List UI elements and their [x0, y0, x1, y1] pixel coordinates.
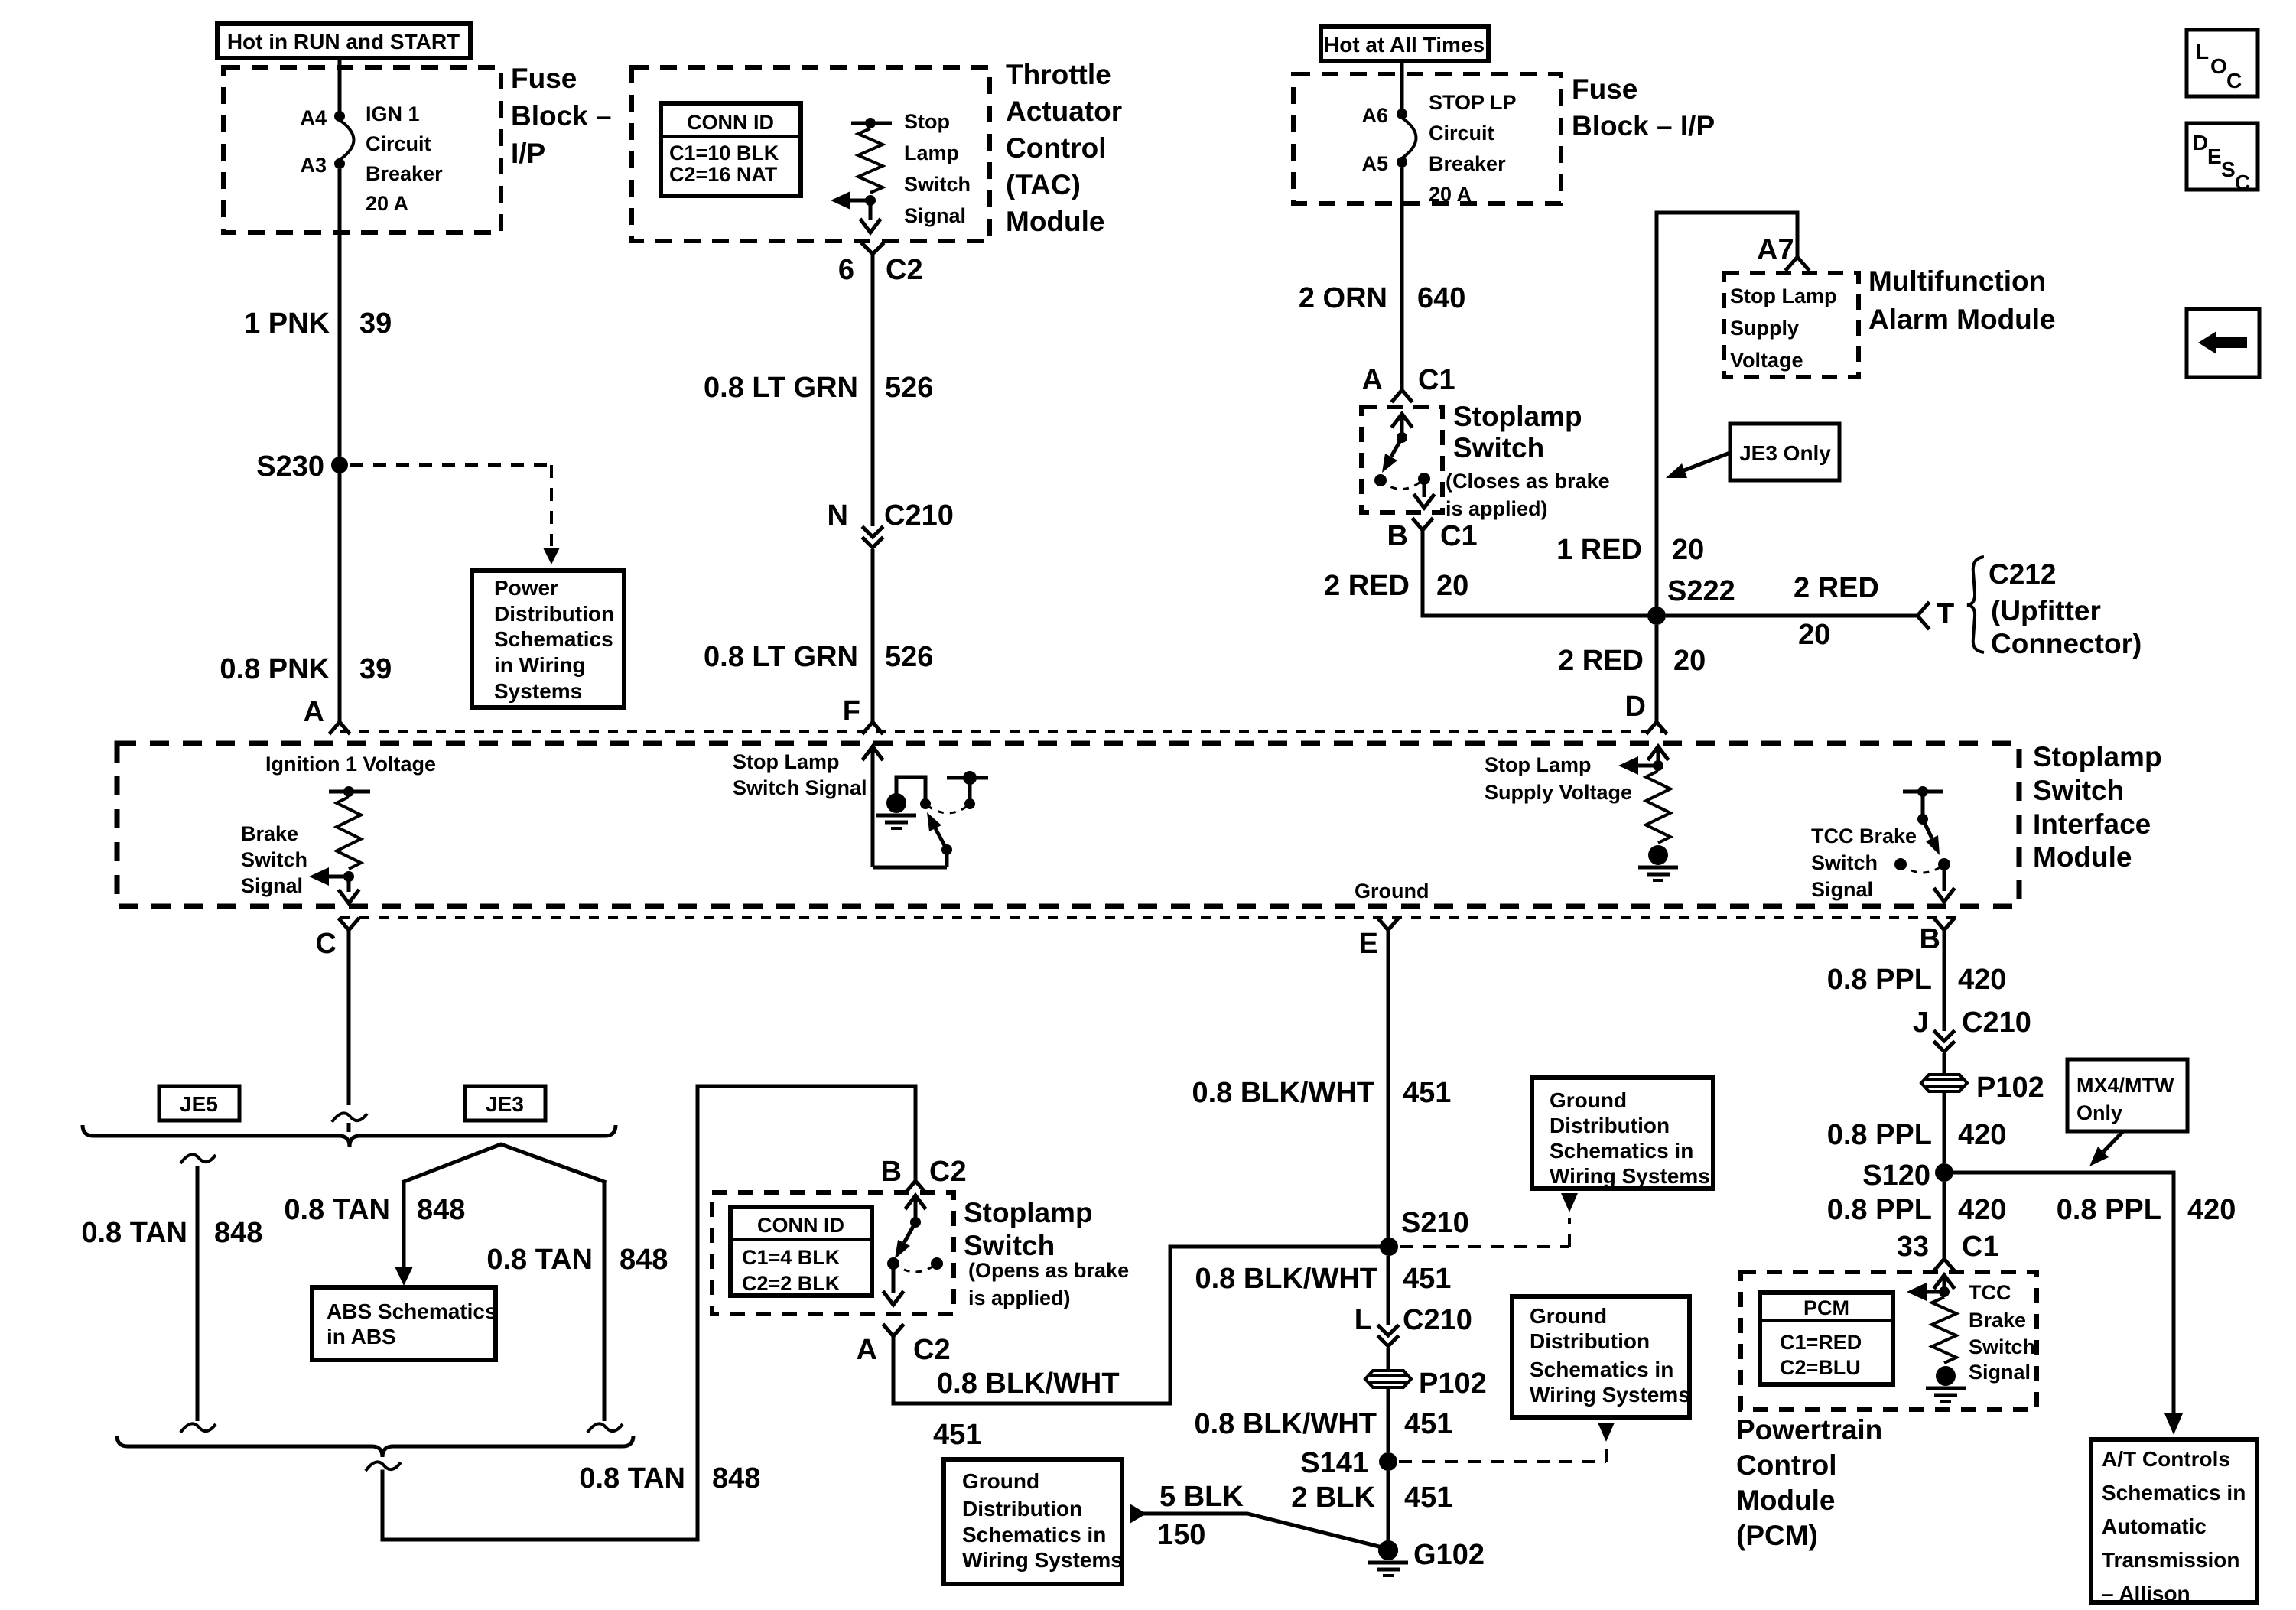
- svg-text:Stoplamp: Stoplamp: [2033, 741, 2162, 772]
- svg-text:Control: Control: [1736, 1449, 1837, 1481]
- svg-text:A5: A5: [1361, 152, 1388, 175]
- pin A of interface module: [304, 696, 349, 733]
- svg-text:Powertrain: Powertrain: [1736, 1414, 1882, 1446]
- svg-text:Switch: Switch: [1811, 851, 1878, 874]
- svg-text:Ground: Ground: [962, 1469, 1039, 1493]
- wire to P102: [1387, 1348, 1390, 1371]
- label STOP LP Circuit Breaker 20 A: [1429, 91, 1517, 206]
- label 0.8 LT GRN 526 (upper): [704, 372, 933, 404]
- svg-text:Connector): Connector): [1991, 628, 2142, 659]
- connector A7 to multifunction alarm module: [1757, 234, 1808, 269]
- module name Powertrain Control Module (PCM): [1736, 1414, 1882, 1551]
- label 0.8 TAN 848 (ABS branch): [284, 1194, 465, 1226]
- stop lamp switch signal resistor (TAC internal): [851, 118, 892, 233]
- svg-text:C210: C210: [884, 499, 954, 532]
- wire 0.8 PPL 420 from S120 to PCM: [1943, 1182, 1946, 1258]
- svg-text:C1=4 BLK: C1=4 BLK: [742, 1246, 841, 1269]
- label 0.8 PPL 420 (pin B): [1827, 964, 2007, 996]
- svg-text:Stop Lamp: Stop Lamp: [1730, 285, 1837, 307]
- brace joining JE5 and JE3 branches: [83, 1125, 616, 1147]
- arrow to left (brake switch signal): [309, 867, 349, 886]
- wire 1 RED 20 from A7 branch down to S222: [1657, 213, 1797, 607]
- svg-text:Actuator: Actuator: [1006, 96, 1122, 127]
- terminal T of C212 upfitter connector: [1937, 598, 1954, 630]
- connector N C210: [828, 499, 954, 548]
- connector B C2 at lower stoplamp switch: [881, 1156, 967, 1192]
- svg-text:Brake: Brake: [241, 822, 298, 845]
- svg-text:C2=BLU: C2=BLU: [1780, 1356, 1861, 1379]
- svg-text:Hot at All Times: Hot at All Times: [1324, 33, 1485, 57]
- svg-text:A: A: [304, 696, 324, 728]
- wire 0.8 TAN 848 right JE3 branch: [587, 1182, 623, 1433]
- grommet P102 (right): [1921, 1072, 2044, 1104]
- svg-text:C: C: [2235, 171, 2250, 194]
- svg-text:0.8 LT GRN: 0.8 LT GRN: [704, 641, 858, 673]
- wire 0.8 LT GRN 526 (lower): [871, 549, 875, 722]
- svg-text:848: 848: [214, 1217, 262, 1249]
- svg-text:Hot in RUN and START: Hot in RUN and START: [227, 30, 460, 54]
- dashed arc of F switch: [927, 805, 968, 813]
- svg-text:Alarm Module: Alarm Module: [1868, 304, 2056, 335]
- label Stop Lamp Supply Voltage (multifunction): [1730, 285, 1837, 372]
- svg-text:D: D: [1625, 691, 1646, 723]
- box Power Distribution Schematics in Wiring Systems: [472, 571, 624, 707]
- svg-text:Module: Module: [1736, 1485, 1835, 1516]
- svg-text:Systems: Systems: [494, 679, 582, 703]
- wire 0.8 TAN 848 to stoplamp switch B C2: [366, 1086, 915, 1540]
- label 0.8 TAN 848 (JE5 branch): [81, 1217, 262, 1249]
- svg-text:Block – I/P: Block – I/P: [1572, 110, 1715, 141]
- svg-text:C: C: [2226, 69, 2242, 93]
- JE3 label box: [465, 1086, 545, 1120]
- arrow to left (stop lamp supply voltage): [1618, 756, 1658, 775]
- svg-text:848: 848: [712, 1462, 760, 1495]
- label 2 ORN 640: [1299, 282, 1466, 314]
- LOC reference box: [2187, 30, 2258, 96]
- svg-text:L: L: [1355, 1304, 1372, 1336]
- svg-text:A7: A7: [1757, 234, 1794, 266]
- brake switch signal resistor (module internal): [329, 786, 370, 903]
- wire 0.8 TAN 848 to ABS arrow: [395, 1182, 413, 1286]
- svg-text:Switch: Switch: [1969, 1335, 2035, 1358]
- svg-text:2 RED: 2 RED: [1558, 645, 1644, 677]
- pin A6: [1361, 104, 1407, 127]
- svg-text:Wiring Systems: Wiring Systems: [1530, 1383, 1690, 1407]
- box Ground Distribution Schematics in Wiring Systems (lower right): [1512, 1296, 1690, 1417]
- label Ground (module internal): [1355, 880, 1429, 903]
- svg-text:JE3: JE3: [486, 1092, 524, 1116]
- DESC reference box: [2187, 123, 2258, 194]
- module name Stoplamp Switch Interface Module: [2033, 741, 2162, 873]
- svg-text:Power: Power: [494, 576, 558, 600]
- svg-text:C210: C210: [1962, 1007, 2031, 1039]
- svg-text:(PCM): (PCM): [1736, 1520, 1818, 1551]
- connector A C2 below lower stoplamp switch: [857, 1325, 951, 1366]
- label 1 RED 20: [1556, 534, 1704, 566]
- svg-text:Circuit: Circuit: [1429, 122, 1494, 145]
- svg-text:526: 526: [885, 372, 933, 404]
- svg-text:Stop: Stop: [904, 110, 950, 133]
- svg-text:5 BLK: 5 BLK: [1159, 1481, 1244, 1513]
- CONN ID box (stoplamp switch): C1=4 BLK C2=2 BLK: [730, 1207, 872, 1296]
- left arrow box: [2187, 309, 2259, 377]
- svg-text:C2: C2: [886, 254, 923, 286]
- svg-text:0.8 BLK/WHT: 0.8 BLK/WHT: [1195, 1263, 1377, 1295]
- wire J to P102: [1943, 1053, 1946, 1075]
- svg-text:848: 848: [620, 1244, 668, 1276]
- svg-text:2 RED: 2 RED: [1324, 570, 1410, 602]
- label TCC Brake Switch Signal (module): [1811, 825, 1917, 901]
- stoplamp switch dashed box (closes): [1361, 407, 1442, 512]
- JE3 branch fan wires: [404, 1144, 604, 1182]
- wire from Hot in RUN box to circuit breaker: [338, 58, 342, 112]
- svg-text:I/P: I/P: [511, 138, 545, 169]
- module name Fuse Block - I/P (left): [511, 63, 612, 169]
- wire 0.8 TAN 848 JE5 branch: [180, 1154, 216, 1433]
- wire 0.8 PPL 420 branch to A/T controls: [1953, 1173, 2183, 1435]
- JE3 Only callout box: [1730, 424, 1839, 480]
- svg-text:39: 39: [359, 653, 392, 685]
- svg-text:CONN ID: CONN ID: [757, 1214, 844, 1237]
- svg-text:Stoplamp: Stoplamp: [964, 1197, 1093, 1228]
- label box "Hot in RUN and START": [217, 24, 470, 58]
- wire 0.8 BLK/WHT 451 from switch to S210: [893, 1247, 1380, 1403]
- connector B C1 below stoplamp switch: [1387, 519, 1478, 552]
- svg-text:1 PNK: 1 PNK: [244, 307, 330, 340]
- svg-text:451: 451: [1404, 1408, 1452, 1440]
- svg-text:G102: G102: [1413, 1539, 1485, 1571]
- wire 5 BLK 150 to G102: [1130, 1504, 1388, 1549]
- box Ground Distribution Schematics in Wiring Systems (bottom left): [944, 1459, 1123, 1584]
- label Brake Switch Signal: [241, 822, 307, 897]
- svg-text:Distribution: Distribution: [1550, 1114, 1670, 1137]
- connector 33 C1 at PCM: [1897, 1231, 1999, 1270]
- svg-text:Stoplamp: Stoplamp: [1453, 401, 1582, 432]
- TCC brake switch contacts (module internal): [1894, 786, 1953, 902]
- svg-text:STOP LP: STOP LP: [1429, 91, 1517, 114]
- svg-text:S230: S230: [256, 450, 324, 483]
- svg-text:Switch: Switch: [904, 173, 971, 196]
- wire 2 RED 20 to upfitter connector: [1666, 603, 1928, 628]
- svg-text:2 RED: 2 RED: [1794, 572, 1879, 604]
- module name Multifunction Alarm Module: [1868, 265, 2056, 335]
- svg-text:C2=16 NAT: C2=16 NAT: [669, 163, 778, 186]
- multifunction alarm module dashed box: [1724, 273, 1859, 377]
- label Ignition 1 Voltage: [265, 753, 436, 776]
- internal switch blade at F: [927, 812, 947, 850]
- svg-text:451: 451: [933, 1419, 981, 1451]
- splice S210: [1380, 1207, 1469, 1256]
- dashed reference from S230 to Power Distribution: [350, 465, 560, 564]
- pin A5: [1361, 152, 1407, 175]
- svg-text:C1=10 BLK: C1=10 BLK: [669, 141, 779, 164]
- svg-text:Stop Lamp: Stop Lamp: [733, 750, 840, 773]
- svg-text:Distribution: Distribution: [1530, 1329, 1650, 1353]
- svg-text:Wiring Systems: Wiring Systems: [962, 1548, 1123, 1572]
- wire 2 RED 20 from S222 down to pin D: [1655, 625, 1659, 722]
- TCC brake switch signal resistor (PCM internal): [1926, 1275, 1966, 1401]
- svg-text:MX4/MTW: MX4/MTW: [2076, 1074, 2174, 1097]
- svg-text:O: O: [2210, 54, 2227, 78]
- stoplamp switch contacts (closes as brake applied): [1374, 414, 1433, 508]
- svg-text:P102: P102: [1976, 1072, 2044, 1104]
- svg-text:Module: Module: [1006, 206, 1104, 237]
- label Stop Lamp Switch Signal (TAC): [904, 110, 971, 227]
- svg-text:20 A: 20 A: [366, 192, 408, 215]
- stoplamp switch contacts (opens as brake applied): [884, 1195, 943, 1305]
- label Stop Lamp Supply Voltage (module): [1485, 753, 1632, 804]
- svg-text:A/T Controls: A/T Controls: [2102, 1447, 2230, 1471]
- wire 2 RED 20 from switch B to S222: [1423, 530, 1648, 616]
- svg-text:– Allison: – Allison: [2102, 1582, 2190, 1605]
- svg-text:Multifunction: Multifunction: [1868, 265, 2046, 297]
- internal fixed contact at F: [947, 771, 988, 809]
- svg-text:420: 420: [2187, 1194, 2236, 1226]
- svg-text:451: 451: [1403, 1077, 1451, 1109]
- svg-text:JE3 Only: JE3 Only: [1739, 441, 1831, 465]
- svg-text:A: A: [857, 1334, 877, 1366]
- wire 1 PNK 39: [338, 169, 342, 460]
- label 0.8 PPL 420 (above S120): [1827, 1119, 2007, 1151]
- label 1 PNK 39: [244, 307, 392, 340]
- svg-text:Switch: Switch: [964, 1230, 1055, 1261]
- label 5 BLK 150: [1157, 1481, 1244, 1551]
- svg-text:Breaker: Breaker: [1429, 152, 1506, 175]
- fuse block I/P dashed box (right): [1293, 74, 1561, 203]
- svg-text:Module: Module: [2033, 841, 2132, 873]
- svg-text:TCC: TCC: [1969, 1281, 2011, 1304]
- label 0.8 PPL 420 (branch): [2057, 1194, 2236, 1226]
- dashed reference from S210 to ground distribution: [1400, 1193, 1578, 1247]
- svg-text:C210: C210: [1403, 1304, 1472, 1336]
- svg-text:B: B: [1920, 923, 1940, 955]
- pin E wire down to S210: [1359, 919, 1397, 1238]
- svg-text:A6: A6: [1361, 104, 1388, 127]
- PCM dashed box: [1741, 1272, 2037, 1410]
- svg-text:C1=RED: C1=RED: [1780, 1331, 1862, 1354]
- svg-text:CONN ID: CONN ID: [687, 111, 774, 134]
- wire 0.8 LT GRN 526 (upper): [871, 254, 875, 526]
- module name Stoplamp Switch (lower): [964, 1197, 1093, 1261]
- svg-text:(Opens as brake: (Opens as brake: [968, 1259, 1129, 1282]
- svg-text:0.8 TAN: 0.8 TAN: [486, 1244, 593, 1276]
- label 0.8 BLK/WHT 451 (pin E leg): [1192, 1077, 1451, 1109]
- svg-text:Brake: Brake: [1969, 1309, 2026, 1332]
- svg-text:Signal: Signal: [241, 874, 303, 897]
- svg-text:IGN 1: IGN 1: [366, 102, 420, 125]
- svg-text:Switch Signal: Switch Signal: [733, 776, 867, 799]
- svg-text:451: 451: [1403, 1263, 1451, 1295]
- svg-text:20: 20: [1798, 619, 1830, 651]
- label 2 RED 20 (left of S222): [1324, 570, 1468, 602]
- brace and label C212 (Upfitter Connector): [1967, 557, 2142, 659]
- svg-text:Signal: Signal: [1811, 878, 1873, 901]
- label IGN 1 Circuit Breaker 20 A: [366, 102, 443, 215]
- wire 0.8 PNK 39: [338, 470, 342, 722]
- svg-text:Only: Only: [2076, 1101, 2122, 1124]
- svg-text:(Closes as brake: (Closes as brake: [1446, 470, 1610, 493]
- svg-text:C2=2 BLK: C2=2 BLK: [742, 1272, 841, 1295]
- pin A4: [300, 106, 345, 129]
- label box "Hot at All Times": [1321, 27, 1488, 61]
- pin B wire down (0.8 PPL 420): [1920, 919, 1953, 1031]
- svg-text:Switch: Switch: [1453, 432, 1544, 463]
- svg-text:0.8 PPL: 0.8 PPL: [1827, 1119, 1932, 1151]
- svg-text:Ignition 1 Voltage: Ignition 1 Voltage: [265, 753, 436, 776]
- connector 6 C2 at TAC: [838, 244, 923, 286]
- TAC module dashed box: [632, 67, 990, 241]
- stop lamp switch signal pin F arrow: [863, 746, 952, 867]
- svg-text:420: 420: [1958, 1119, 2006, 1151]
- svg-text:Switch: Switch: [241, 848, 307, 871]
- label (Closes as brake is applied): [1446, 470, 1610, 520]
- label 2 BLK 451: [1291, 1482, 1452, 1514]
- wire 2 BLK 451 from S141 to G102: [1387, 1471, 1390, 1542]
- svg-text:0.8 TAN: 0.8 TAN: [579, 1462, 685, 1495]
- svg-text:20: 20: [1672, 534, 1704, 566]
- svg-text:2 ORN: 2 ORN: [1299, 282, 1387, 314]
- wire from pin C down to junction brace: [316, 919, 367, 1132]
- CONN ID box (TAC): C1=10 BLK C2=16 NAT: [661, 103, 801, 196]
- svg-text:E: E: [1359, 928, 1378, 960]
- svg-text:39: 39: [359, 307, 392, 340]
- svg-text:C1: C1: [1418, 364, 1455, 396]
- svg-text:P102: P102: [1419, 1368, 1487, 1400]
- svg-text:T: T: [1937, 598, 1954, 630]
- svg-text:A4: A4: [300, 106, 327, 129]
- svg-text:B: B: [1387, 520, 1408, 552]
- svg-text:Schematics: Schematics: [494, 627, 613, 651]
- svg-text:Wiring Systems: Wiring Systems: [1550, 1164, 1710, 1188]
- connector J C210: [1913, 1007, 2031, 1052]
- svg-text:Control: Control: [1006, 132, 1107, 164]
- svg-text:0.8 TAN: 0.8 TAN: [81, 1217, 187, 1249]
- lower brace joining TAN branches: [117, 1436, 633, 1457]
- svg-text:451: 451: [1404, 1482, 1452, 1514]
- wire 0.8 BLK/WHT 451 from S210 to C210: [1387, 1256, 1390, 1325]
- label 0.8 BLK/WHT 451 (below S210): [1195, 1263, 1451, 1295]
- svg-text:Signal: Signal: [1969, 1361, 2031, 1384]
- label 0.8 BLK/WHT 451 (switch leg): [933, 1368, 1120, 1451]
- svg-text:S: S: [2221, 158, 2236, 181]
- svg-text:33: 33: [1897, 1231, 1929, 1263]
- pin F of interface module: [843, 695, 882, 733]
- wire from Hot at All Times box to breaker: [1400, 61, 1404, 110]
- svg-text:C1: C1: [1962, 1231, 1999, 1263]
- svg-text:640: 640: [1417, 282, 1465, 314]
- svg-text:6: 6: [838, 254, 854, 286]
- label (Opens as brake is applied): [968, 1259, 1129, 1309]
- svg-text:Ground: Ground: [1355, 880, 1429, 903]
- svg-text:S141: S141: [1300, 1447, 1368, 1479]
- connector A C1 at stoplamp switch: [1362, 364, 1455, 401]
- label 2 RED 20 (below S222): [1558, 645, 1706, 677]
- arrow from MX4/MTW Only box to wire: [2089, 1131, 2123, 1166]
- svg-text:is applied): is applied): [968, 1286, 1071, 1309]
- svg-text:0.8 PPL: 0.8 PPL: [1827, 1194, 1932, 1226]
- svg-text:Lamp: Lamp: [904, 141, 959, 164]
- svg-text:0.8 BLK/WHT: 0.8 BLK/WHT: [1192, 1077, 1374, 1109]
- svg-text:20 A: 20 A: [1429, 183, 1472, 206]
- svg-text:Fuse: Fuse: [1572, 73, 1637, 105]
- svg-text:Distribution: Distribution: [962, 1497, 1082, 1521]
- svg-text:848: 848: [417, 1194, 465, 1226]
- internal ground contact at F: [876, 777, 931, 828]
- svg-text:0.8 BLK/WHT: 0.8 BLK/WHT: [937, 1368, 1120, 1400]
- pin A3: [300, 154, 345, 177]
- svg-text:N: N: [828, 499, 848, 532]
- connector L C210: [1355, 1304, 1472, 1346]
- svg-text:Schematics in: Schematics in: [2102, 1481, 2246, 1504]
- JE5 label box: [159, 1086, 239, 1120]
- svg-text:C: C: [316, 928, 337, 960]
- svg-text:0.8 PNK: 0.8 PNK: [220, 653, 330, 685]
- svg-text:D: D: [2193, 131, 2208, 154]
- label 0.8 BLK/WHT 451 (above S141): [1194, 1408, 1452, 1440]
- label 0.8 LT GRN 526 (lower): [704, 641, 933, 673]
- fuse block I/P dashed box (left): [223, 67, 501, 233]
- stoplamp switch interface module dashed box: [117, 743, 2019, 906]
- svg-text:C2: C2: [913, 1334, 951, 1366]
- svg-text:Ground: Ground: [1550, 1088, 1627, 1112]
- box ABS Schematics in ABS: [312, 1287, 497, 1360]
- svg-text:Fuse: Fuse: [511, 63, 577, 94]
- svg-text:PCM: PCM: [1803, 1296, 1849, 1319]
- grommet P102 (center): [1365, 1368, 1487, 1400]
- CONN ID box (PCM): C1=RED C2=BLU: [1760, 1293, 1893, 1384]
- svg-text:526: 526: [885, 641, 933, 673]
- label 0.8 TAN 848 (right JE3 branch): [486, 1244, 668, 1276]
- wire 2 ORN 640: [1400, 168, 1404, 389]
- svg-text:is applied): is applied): [1446, 497, 1548, 520]
- stoplamp switch dashed box (opens): [712, 1192, 954, 1314]
- wire 0.8 PPL 420 from P102 to S120: [1943, 1092, 1946, 1163]
- svg-text:0.8 PPL: 0.8 PPL: [2057, 1194, 2161, 1226]
- label TCC Brake Switch Signal (PCM): [1969, 1281, 2035, 1384]
- svg-text:S210: S210: [1401, 1207, 1469, 1239]
- svg-text:Switch: Switch: [2033, 775, 2124, 806]
- svg-text:Supply Voltage: Supply Voltage: [1485, 781, 1632, 804]
- ground G102: [1368, 1539, 1485, 1576]
- svg-text:(TAC): (TAC): [1006, 169, 1081, 200]
- connector line (thin dashed) top, pins A F D: [340, 730, 1665, 733]
- arrow to left (TCC brake switch signal PCM): [1907, 1283, 1944, 1301]
- svg-text:in Wiring: in Wiring: [494, 653, 586, 677]
- svg-text:A3: A3: [300, 154, 327, 177]
- box Ground Distribution Schematics in Wiring Systems (upper): [1532, 1078, 1713, 1189]
- arrow from JE3 Only box to wire: [1666, 453, 1730, 478]
- svg-text:Distribution: Distribution: [494, 602, 614, 626]
- svg-text:Breaker: Breaker: [366, 162, 443, 185]
- svg-text:JE5: JE5: [180, 1092, 218, 1116]
- svg-text:TCC Brake: TCC Brake: [1811, 825, 1917, 847]
- svg-text:20: 20: [1673, 645, 1706, 677]
- svg-text:0.8 TAN: 0.8 TAN: [284, 1194, 390, 1226]
- module name Fuse Block - I/P (right): [1572, 73, 1715, 141]
- svg-text:S120: S120: [1862, 1160, 1930, 1192]
- label 0.8 PPL 420 (below S120): [1827, 1194, 2007, 1226]
- svg-text:F: F: [843, 695, 860, 727]
- label 0.8 TAN 848 (bottom): [579, 1462, 760, 1495]
- stop lamp supply voltage resistor at pin D: [1638, 746, 1678, 880]
- svg-text:E: E: [2207, 145, 2222, 168]
- svg-text:Schematics in: Schematics in: [962, 1523, 1106, 1547]
- svg-text:Automatic: Automatic: [2102, 1514, 2207, 1538]
- svg-text:ABS Schematics: ABS Schematics: [327, 1299, 497, 1323]
- svg-text:420: 420: [1958, 1194, 2006, 1226]
- svg-text:L: L: [2196, 40, 2209, 63]
- svg-text:20: 20: [1436, 570, 1468, 602]
